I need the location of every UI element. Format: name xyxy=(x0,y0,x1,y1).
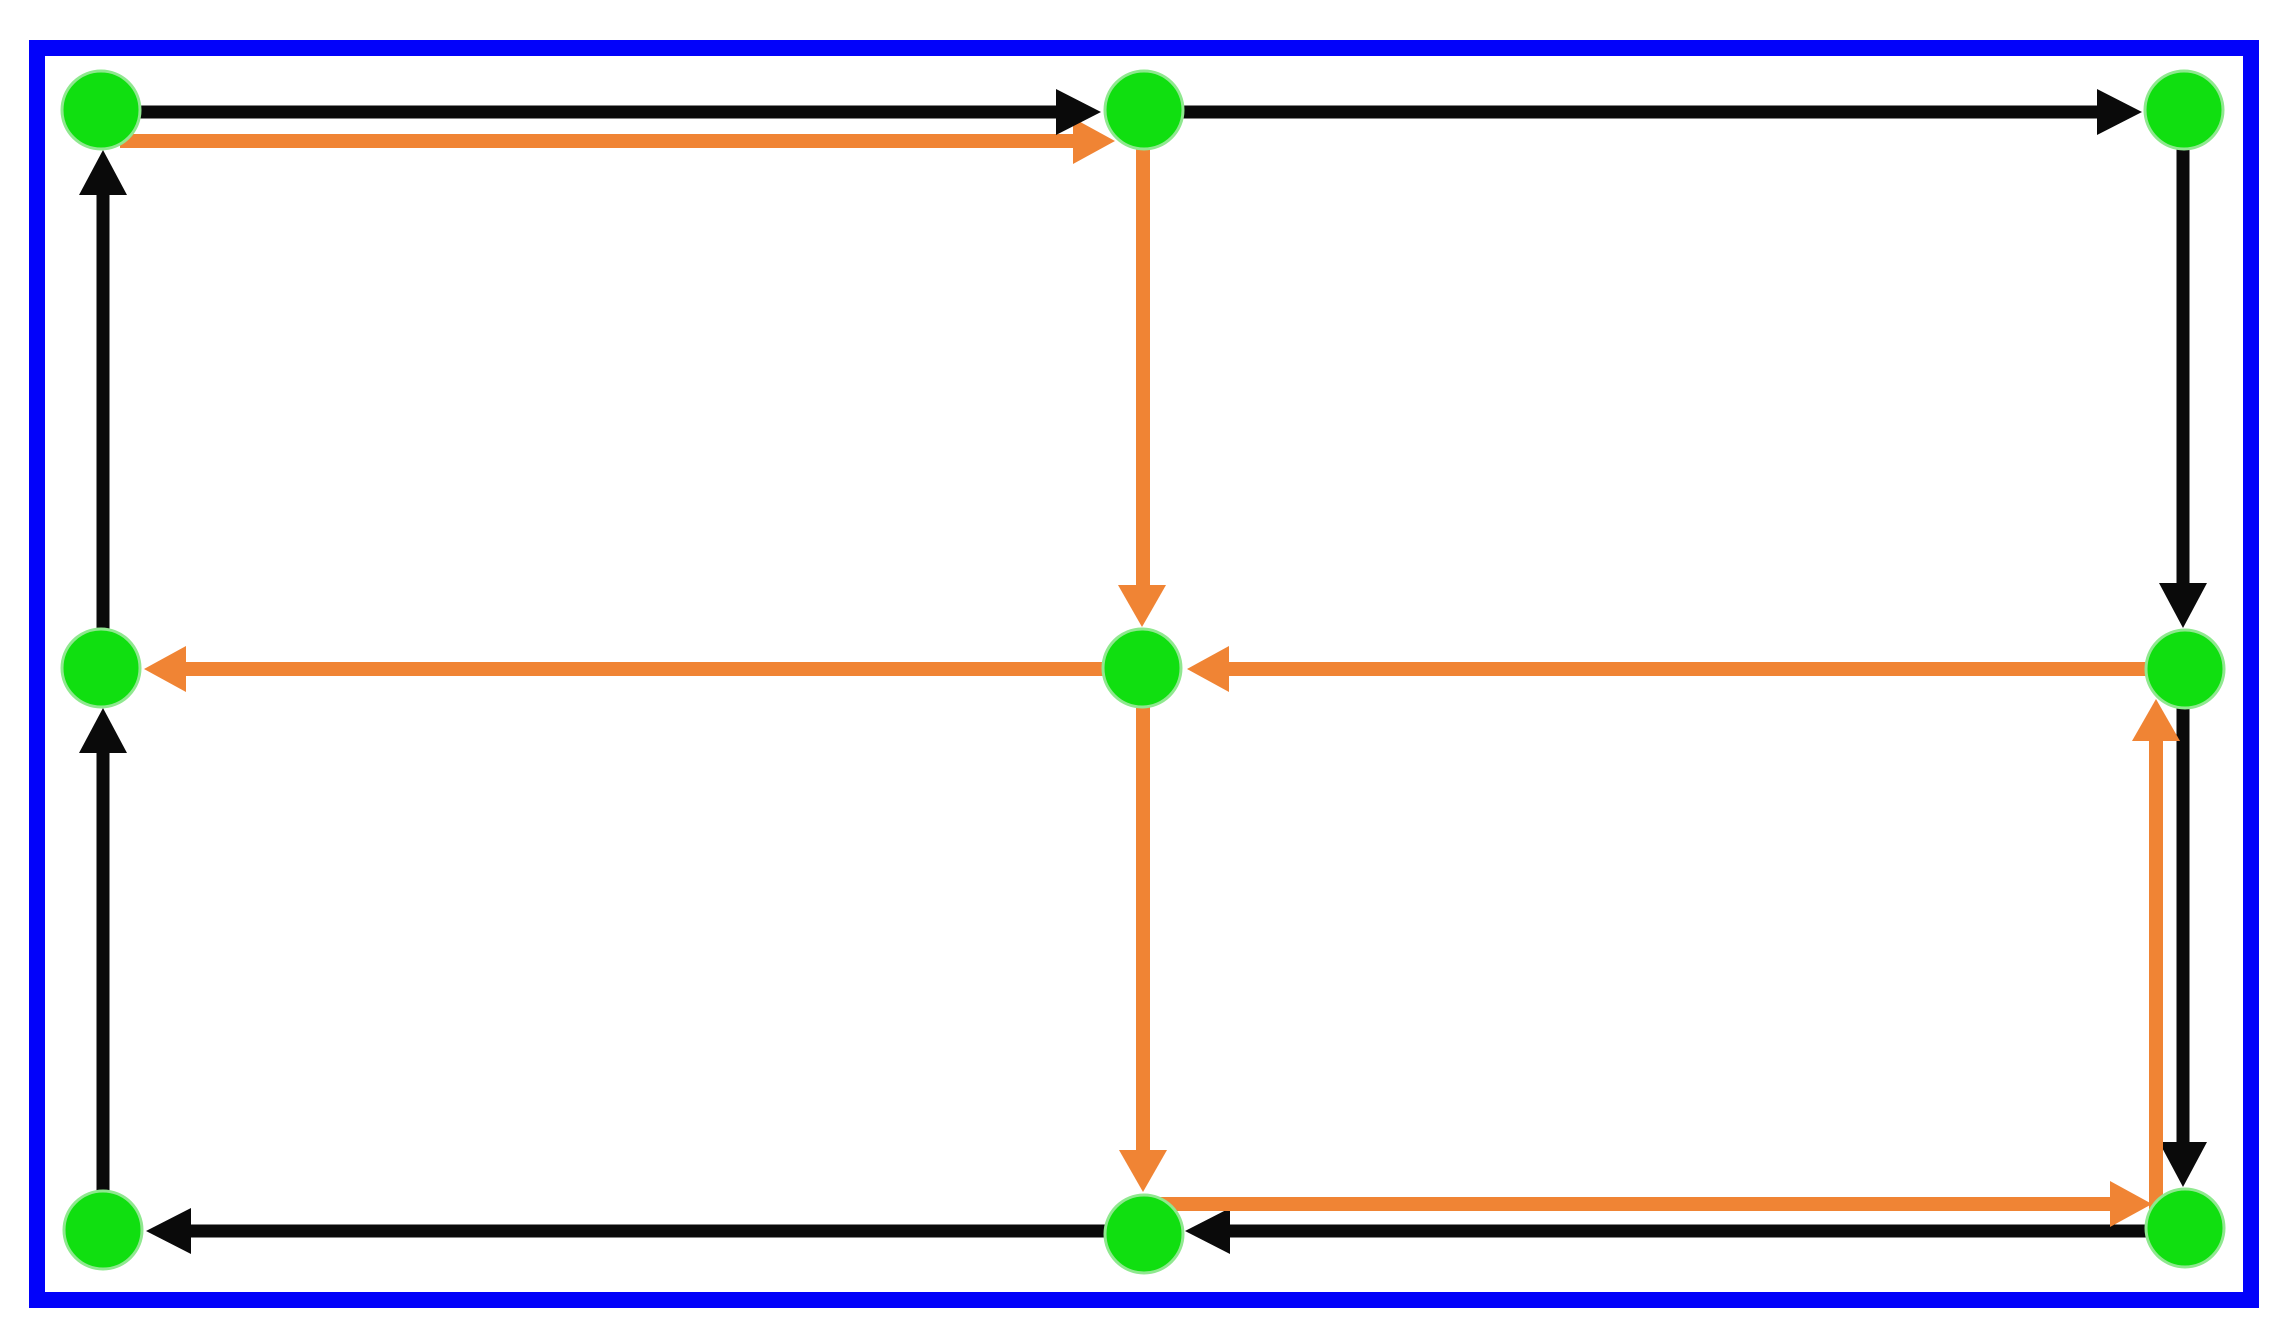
node N2 top-middle xyxy=(1105,71,1183,149)
wire black edge N7->N4 (left lower vertical, up) xyxy=(79,708,127,1230)
wire black edge N6->N9 (right lower vertical, down) xyxy=(2159,668,2207,1187)
wire orange edge N2->N5 (middle upper vertical, down) xyxy=(1118,112,1166,627)
node N5 middle-center xyxy=(1103,629,1181,707)
wire orange edge N1->N2 (top horizontal, right) xyxy=(120,118,1115,164)
node N6 middle-right xyxy=(2146,630,2224,708)
wire orange edge N5->N8 (middle lower vertical, down) xyxy=(1119,668,1167,1192)
wire black edge N8->N7 (bottom-left horizontal, left) xyxy=(146,1208,1144,1254)
wire orange edge N6->N5 (middle horizontal, right segment) xyxy=(1187,646,2184,692)
wire black edge N4->N1 (left upper vertical, up) xyxy=(79,150,127,668)
wire black edge N9->N8 (bottom-right horizontal, left) xyxy=(1185,1208,2184,1254)
node N4 middle-left xyxy=(62,629,140,707)
wire orange edge corner->N6 (right vertical, up) xyxy=(2132,699,2180,1209)
wire orange edge N8->corner (bottom horizontal, right) xyxy=(1144,1181,2152,1227)
node N7 bottom-left xyxy=(64,1191,142,1269)
wire black edge N2->N3 (top-right horizontal) xyxy=(1143,89,2142,135)
wire black edge N3->N6 (right upper vertical, down) xyxy=(2159,110,2207,628)
node N1 top-left xyxy=(62,71,140,149)
node N8 bottom-middle xyxy=(1105,1195,1183,1273)
node N9 bottom-right xyxy=(2146,1189,2224,1267)
wire black edge N1->N2 (top-left horizontal) xyxy=(102,89,1101,135)
wire orange edge N5->N4 (middle horizontal, left segment) xyxy=(144,646,1142,692)
node N3 top-right xyxy=(2145,71,2223,149)
